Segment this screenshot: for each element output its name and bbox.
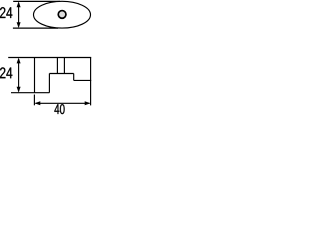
dimension arrow 24 (top view) <box>17 1 21 28</box>
step vertical right <box>73 74 75 81</box>
slot vertical 1 <box>56 58 58 74</box>
shelf H2 <box>49 73 73 75</box>
right edge + 40 right extension <box>90 58 92 106</box>
side view: top edge H1 <box>8 57 91 59</box>
shelf H3 <box>74 79 92 81</box>
extension line top (top view) <box>13 0 60 2</box>
label 40 <box>54 104 64 114</box>
step vertical at bottom notch <box>48 74 50 93</box>
left face vertical <box>34 58 36 93</box>
bottom edge H4 <box>11 92 49 94</box>
label 24 (top view) <box>0 7 12 18</box>
dim 40: left extension <box>33 95 35 106</box>
top view: ellipse body <box>34 1 91 28</box>
dimension arrow 40 <box>35 101 91 105</box>
extension line bottom (top view) <box>13 27 58 29</box>
hole circle <box>58 11 66 19</box>
dimension arrow 24 (side view) <box>17 58 21 93</box>
slot vertical 2 <box>63 58 65 74</box>
label 24 (side view) <box>0 67 12 78</box>
